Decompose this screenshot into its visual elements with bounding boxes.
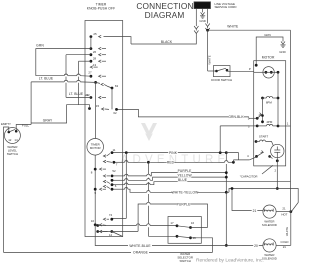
svg-text:SERVICE CORD: SERVICE CORD bbox=[215, 5, 237, 9]
svg-text:14: 14 bbox=[14, 138, 18, 142]
watermark logo bbox=[121, 123, 230, 166]
wire door switch to motor P bbox=[227, 70, 254, 72]
junction yellow v2 bbox=[225, 176, 228, 179]
contact 7 bbox=[103, 160, 106, 163]
timer contact 25 bbox=[99, 35, 102, 38]
white wire down to door switch bbox=[207, 30, 209, 71]
green ground wire bbox=[256, 37, 283, 65]
svg-text:74: 74 bbox=[109, 213, 113, 217]
timer node 52 bbox=[111, 175, 114, 178]
wire to motor 3 bbox=[220, 125, 249, 127]
ORANGE label bbox=[134, 250, 148, 254]
diagonal to box corner bbox=[112, 232, 123, 237]
svg-text:PURPLE: PURPLE bbox=[177, 202, 191, 206]
motor 1 exit bbox=[278, 125, 286, 127]
timer node yellow bbox=[111, 179, 114, 182]
ground symbol motor bbox=[281, 42, 285, 45]
timer node 6 bbox=[111, 183, 114, 186]
PURPLE label bbox=[178, 169, 192, 173]
contact 8 bbox=[100, 168, 103, 171]
motor box bbox=[254, 61, 286, 166]
hop ltblue1 x78 bbox=[77, 74, 80, 76]
cold water solenoid bbox=[263, 239, 276, 252]
svg-text:26: 26 bbox=[93, 50, 97, 54]
20 label cold left bbox=[253, 243, 259, 247]
svg-text:HOT: HOT bbox=[281, 213, 287, 217]
junction pink riser bbox=[125, 151, 128, 154]
svg-text:19: 19 bbox=[193, 236, 197, 240]
junction pink riser3 bbox=[219, 151, 222, 154]
plug chevron 3 bbox=[205, 24, 209, 27]
selector contact upper bbox=[261, 114, 264, 117]
svg-text:22: 22 bbox=[85, 93, 89, 97]
red wire a bbox=[114, 161, 125, 163]
terminal 13 bbox=[90, 60, 93, 63]
riser2 e bbox=[147, 206, 149, 224]
selector terminal 17 bbox=[176, 224, 179, 227]
svg-text:15: 15 bbox=[96, 104, 100, 108]
main winding right node bbox=[277, 97, 280, 100]
water level switch circle bbox=[4, 128, 20, 144]
svg-text:16: 16 bbox=[191, 221, 195, 225]
motor node bottom right bbox=[277, 125, 280, 128]
purple wire seg c bbox=[150, 173, 226, 176]
svg-text:RED: RED bbox=[167, 161, 175, 165]
junction hot feed bbox=[231, 187, 234, 190]
svg-text:SWITCH: SWITCH bbox=[7, 152, 18, 156]
contact 11 bbox=[103, 155, 106, 158]
wls full terminal bbox=[15, 130, 18, 133]
svg-text:FULL: FULL bbox=[22, 123, 29, 127]
lt blue upper wire b bbox=[68, 75, 77, 77]
plug chevron 2 bbox=[194, 31, 198, 34]
svg-text:YELLOW: YELLOW bbox=[177, 173, 192, 177]
junction pink v2 bbox=[225, 151, 228, 154]
plug chevron 4 bbox=[205, 28, 209, 31]
svg-text:ADVENTURE: ADVENTURE bbox=[121, 154, 230, 166]
wire to terminal 13 bbox=[79, 60, 91, 62]
svg-text:28: 28 bbox=[93, 56, 97, 60]
terminal 63 bbox=[111, 87, 114, 90]
yellow wire seg c bbox=[150, 177, 226, 180]
yellow wire seg b bbox=[128, 179, 147, 181]
lt blue 2 wire bbox=[66, 96, 91, 98]
yellow wire seg a bbox=[112, 179, 125, 181]
grn-blk wire bbox=[117, 109, 249, 117]
svg-text:WHITE-YELLOW: WHITE-YELLOW bbox=[172, 191, 199, 195]
vertical x78 lower bbox=[78, 83, 80, 105]
wire timer 12 to riser x138 bbox=[98, 231, 138, 233]
svg-text:BLACK: BLACK bbox=[161, 40, 173, 44]
left service pin wire bbox=[195, 9, 197, 26]
timer node 8 bbox=[94, 168, 97, 171]
blue wire seg a bbox=[112, 184, 125, 186]
riser2 d bbox=[147, 194, 149, 202]
svg-text:GRAY: GRAY bbox=[43, 118, 53, 122]
svg-text:START: START bbox=[259, 135, 268, 139]
white-yellow seg b bbox=[128, 189, 147, 192]
timer motor circle bbox=[87, 139, 104, 156]
svg-text:KNOB-PUSH OFF: KNOB-PUSH OFF bbox=[87, 7, 115, 11]
terminal 3 dot bbox=[256, 125, 259, 128]
purple wire seg b bbox=[128, 175, 147, 177]
hot right junction bbox=[289, 210, 292, 213]
red stub up bbox=[232, 160, 234, 162]
white-yellow seg c bbox=[150, 191, 226, 193]
riser x138 to purple2 bbox=[138, 204, 147, 231]
wire to terminal 28 bbox=[66, 54, 91, 56]
wire seg bbox=[140, 225, 147, 227]
svg-text:WHITE: WHITE bbox=[285, 227, 289, 236]
white wire right vertical bbox=[290, 30, 292, 208]
lt blue lower wire a bbox=[31, 81, 64, 83]
blue hop riser2 bbox=[147, 183, 150, 185]
svg-text:BLUE: BLUE bbox=[178, 178, 188, 182]
selector terminal 19 bbox=[189, 236, 192, 239]
motor protector circle bbox=[263, 67, 274, 78]
wire hot solenoid left feed bbox=[232, 189, 263, 211]
svg-text:4PM: 4PM bbox=[266, 120, 273, 124]
svg-text:SOLENOID: SOLENOID bbox=[262, 223, 277, 227]
wire 2 down from capacitor bbox=[276, 161, 278, 189]
wire to selector 18 bbox=[148, 235, 177, 237]
start switch contact bbox=[268, 155, 271, 158]
red hop riser bbox=[125, 161, 128, 163]
svg-text:PINK: PINK bbox=[169, 151, 178, 155]
riser pink to motor 3 bbox=[219, 126, 221, 153]
wire P into protector bbox=[254, 71, 266, 73]
riser2 f bbox=[147, 227, 149, 236]
svg-text:PURPLE: PURPLE bbox=[178, 169, 192, 173]
hot water solenoid bbox=[263, 205, 276, 218]
svg-text:GRN: GRN bbox=[264, 33, 270, 37]
svg-text:12: 12 bbox=[109, 233, 113, 237]
left winding vertical bbox=[262, 98, 264, 122]
vertical v2 mid bbox=[225, 164, 227, 192]
svg-text:13: 13 bbox=[93, 63, 97, 67]
contact 74 bbox=[103, 218, 106, 221]
riser2 a bbox=[147, 162, 149, 174]
gray wire bbox=[31, 105, 78, 123]
vertical through box bottom bbox=[94, 225, 96, 237]
PURPLE label 2 bbox=[177, 202, 191, 206]
svg-text:P: P bbox=[249, 67, 251, 71]
wire to selector 17 a bbox=[98, 225, 137, 227]
svg-text:WHITE: WHITE bbox=[227, 25, 239, 29]
timer node 12 bbox=[110, 230, 113, 233]
yellow hop riser bbox=[125, 179, 128, 181]
vertical x66 lower bbox=[65, 83, 67, 98]
motor 4 entry bbox=[249, 157, 256, 160]
contact 12a bbox=[100, 230, 103, 233]
contact 27 bbox=[99, 75, 102, 78]
terminal 26 bbox=[90, 47, 93, 50]
ground symbol service bbox=[201, 12, 205, 15]
wire into door switch bbox=[208, 70, 217, 72]
svg-text:GRN: GRN bbox=[36, 44, 44, 48]
wire to 15 bbox=[79, 105, 90, 109]
hop ltblue1 x66 bbox=[64, 74, 67, 76]
svg-text:21: 21 bbox=[282, 206, 286, 210]
vertical x78 mid bbox=[78, 77, 80, 81]
junction wy v2 bbox=[225, 191, 228, 194]
svg-text:GND: GND bbox=[199, 19, 205, 23]
svg-text:MOTOR: MOTOR bbox=[90, 146, 101, 150]
lt blue upper wire c bbox=[80, 75, 91, 78]
svg-text:ORANGE: ORANGE bbox=[133, 251, 149, 255]
svg-text:52: 52 bbox=[112, 169, 116, 173]
svg-text:10: 10 bbox=[91, 219, 95, 223]
timer motor lower vertical bbox=[94, 155, 96, 225]
white vertical lower bbox=[290, 209, 292, 212]
lt blue upper wire a bbox=[36, 75, 64, 77]
junction v2 white-blue bbox=[225, 244, 228, 247]
main winding coil bbox=[266, 96, 272, 98]
svg-text:27: 27 bbox=[88, 70, 92, 74]
empty wire to orange bbox=[4, 127, 9, 252]
contact 9 bbox=[100, 188, 103, 191]
svg-text:SOLENOID: SOLENOID bbox=[262, 257, 277, 261]
white junction dot bbox=[206, 29, 209, 32]
junction red riser2 bbox=[147, 161, 150, 164]
selector arm top bbox=[177, 226, 190, 228]
vertical v2 lower bbox=[225, 192, 227, 245]
white-blue wire right bbox=[152, 244, 263, 246]
timer node sel1 bbox=[96, 224, 99, 227]
ground stub from block bbox=[202, 9, 204, 13]
vertical v2 upper bbox=[225, 153, 227, 161]
start node bbox=[255, 140, 258, 143]
contact 6 bbox=[103, 180, 106, 183]
motor right internal vertical bbox=[277, 72, 279, 126]
wy hop riser bbox=[125, 188, 128, 190]
contact 23 bbox=[101, 83, 104, 86]
capacitor leader line bbox=[262, 165, 273, 174]
timer node 74 bbox=[110, 218, 113, 221]
PINK label bbox=[168, 151, 178, 155]
RED label bbox=[167, 160, 175, 164]
black wire right segment bbox=[131, 34, 196, 45]
junction 2 wire bbox=[276, 187, 279, 190]
svg-text:DOOR SWITCH: DOOR SWITCH bbox=[211, 78, 232, 82]
contact 15 bbox=[102, 108, 105, 111]
purple2 hop riser2 bbox=[147, 202, 150, 204]
timer node 10 bbox=[94, 223, 97, 226]
terminal 15 node bbox=[88, 107, 91, 110]
wire 19 to orange bbox=[191, 238, 213, 253]
red wire end bbox=[228, 161, 233, 163]
GRN-BLK label bbox=[228, 115, 244, 119]
purple hop riser bbox=[125, 174, 128, 176]
svg-text:GND: GND bbox=[279, 50, 285, 54]
svg-text:MOTOR: MOTOR bbox=[262, 56, 275, 60]
door switch terminal right bbox=[226, 69, 229, 72]
green wire left bbox=[36, 49, 91, 76]
red wire c bbox=[150, 161, 225, 163]
svg-text:11: 11 bbox=[112, 148, 115, 152]
vertical x66 upper bbox=[65, 55, 67, 75]
terminal 4 dot bbox=[255, 155, 258, 158]
lt blue lower wire b bbox=[68, 81, 77, 83]
start coil bbox=[260, 140, 266, 142]
timer node 7 bbox=[113, 161, 116, 164]
svg-text:12: 12 bbox=[8, 138, 12, 142]
red hop over v2 bbox=[225, 161, 228, 163]
svg-text:GRN-BLK: GRN-BLK bbox=[228, 115, 244, 119]
selector terminal 18 bbox=[176, 235, 179, 238]
junction purple v2 bbox=[225, 171, 228, 174]
riser x126 bbox=[125, 153, 127, 219]
white vertical to cold bbox=[290, 212, 292, 246]
BLUE label bbox=[178, 178, 188, 182]
motor chassis dot bbox=[255, 64, 258, 67]
timer node 11 bbox=[111, 151, 114, 154]
timer box bbox=[85, 21, 123, 237]
door switch terminal left bbox=[215, 70, 218, 73]
svg-text:21: 21 bbox=[283, 245, 287, 249]
timer node wy bbox=[111, 188, 114, 191]
speed selector arm bbox=[257, 115, 261, 119]
selector arm bottom bbox=[177, 236, 190, 237]
riser to contact 74 bbox=[112, 217, 127, 220]
WHITE-YELLOW label bbox=[172, 190, 198, 194]
lt blue lower wire c bbox=[80, 81, 95, 84]
contact 52 bbox=[103, 175, 106, 178]
purple wire 2 to selector bbox=[150, 204, 207, 228]
stub bbox=[207, 30, 209, 31]
full wire bbox=[16, 125, 31, 132]
wire 1 to white vertical bbox=[286, 125, 291, 127]
link 63-62 bbox=[111, 88, 113, 109]
svg-text:DIAGRAM: DIAGRAM bbox=[145, 10, 185, 20]
protector contact link bbox=[266, 71, 271, 73]
door switch arm bbox=[217, 68, 227, 71]
terminal 27 bbox=[90, 75, 93, 78]
svg-text:*CAPACITOR: *CAPACITOR bbox=[240, 175, 258, 179]
wls arm bbox=[9, 129, 15, 132]
line voltage terminal block bbox=[194, 2, 211, 9]
timer node sel2 bbox=[96, 230, 99, 233]
contact 22 bbox=[99, 96, 102, 99]
plug chevron 1 bbox=[194, 26, 198, 29]
orange wire left bbox=[4, 251, 132, 253]
timer node 9 bbox=[94, 188, 97, 191]
water selector switch box bbox=[168, 217, 201, 244]
white-blue wire left bbox=[95, 237, 128, 246]
right service pin wire bbox=[207, 9, 209, 24]
capacitor bottom node bbox=[276, 159, 279, 162]
svg-text:COLD: COLD bbox=[280, 240, 288, 244]
selector terminal 16 bbox=[189, 226, 192, 229]
terminal 22 bbox=[90, 96, 93, 99]
blue hop riser bbox=[125, 183, 128, 185]
YELLOW label bbox=[178, 173, 192, 177]
purple hop riser2 bbox=[147, 174, 150, 176]
door switch box bbox=[213, 66, 230, 77]
hop ltblue2 x66 bbox=[64, 80, 67, 82]
terminal 5 stub bbox=[249, 117, 257, 119]
wire to hot solenoid right bbox=[229, 189, 298, 212]
red wire b bbox=[128, 161, 147, 163]
svg-text:62: 62 bbox=[113, 111, 117, 115]
terminal 25 bbox=[90, 35, 93, 38]
red junction bbox=[232, 161, 235, 164]
white-yellow seg a bbox=[112, 188, 125, 190]
orange wire right bbox=[149, 251, 213, 253]
terminal 62 bbox=[115, 108, 118, 111]
svg-text:WHITE-BLUE: WHITE-BLUE bbox=[129, 244, 151, 248]
svg-text:LT. BLUE: LT. BLUE bbox=[39, 76, 54, 80]
svg-text:Rendered by LeadVenture, Inc.: Rendered by LeadVenture, Inc. bbox=[196, 257, 264, 263]
blue wire seg b bbox=[128, 184, 147, 186]
riser2 b bbox=[147, 178, 149, 179]
contact 10 bbox=[100, 224, 103, 227]
purple wire seg a bbox=[112, 175, 125, 177]
hop over riser x138 bbox=[136, 224, 139, 226]
21 label hot left bbox=[252, 208, 258, 212]
selector contact lower 4PM bbox=[261, 120, 264, 123]
vertical x78 upper bbox=[78, 61, 80, 75]
svg-text:21: 21 bbox=[253, 209, 257, 213]
capacitor circle bbox=[271, 144, 284, 157]
terminal 5 dot bbox=[256, 117, 259, 120]
contact aux bbox=[90, 66, 93, 69]
yellow hop riser2 bbox=[147, 179, 150, 181]
hop over riser x148 bbox=[147, 224, 150, 226]
pink wire bbox=[112, 152, 226, 154]
WHITE-BLUE label bbox=[129, 243, 151, 247]
hot right lead bbox=[276, 211, 291, 213]
vertical x66 mid bbox=[65, 77, 67, 81]
contact 28 bbox=[99, 53, 102, 56]
contact to capacitor bbox=[270, 156, 273, 158]
contact 13 bbox=[99, 60, 102, 63]
svg-text:WHITE: WHITE bbox=[208, 55, 212, 64]
riser2 c bbox=[147, 182, 149, 191]
svg-text:6PM: 6PM bbox=[266, 100, 273, 104]
link 25-26 bbox=[90, 37, 92, 49]
svg-text:SWITCH: SWITCH bbox=[179, 259, 190, 263]
terminal 28 bbox=[90, 53, 93, 56]
protector to main node bbox=[271, 71, 278, 73]
cold right lead bbox=[276, 244, 291, 246]
terminal 23 node bbox=[94, 81, 97, 84]
contact wy bbox=[103, 185, 106, 188]
svg-text:25: 25 bbox=[93, 32, 97, 36]
timer motor feed vertical bbox=[95, 82, 97, 138]
white wire horizontal bbox=[208, 29, 291, 31]
wls empty terminal bbox=[8, 131, 11, 134]
contact 26 bbox=[99, 47, 102, 50]
motor 4 feed bbox=[233, 159, 249, 161]
start switch arm bbox=[257, 153, 264, 157]
svg-text:63: 63 bbox=[115, 84, 119, 88]
black wire to timer 25 bbox=[104, 37, 132, 44]
wy hop riser2 bbox=[147, 191, 150, 193]
motor node top right bbox=[277, 71, 280, 74]
start winding coil row bbox=[267, 124, 273, 126]
wire riser to 16 bbox=[191, 227, 208, 229]
pink wire to motor 4 bbox=[226, 153, 238, 160]
terminal 3 stub bbox=[250, 125, 258, 127]
blue wire seg c bbox=[150, 182, 290, 185]
hop ltblue2 x78 bbox=[77, 80, 80, 82]
svg-text:17: 17 bbox=[170, 221, 174, 225]
svg-text:20: 20 bbox=[254, 244, 258, 248]
svg-text:EMPTY: EMPTY bbox=[1, 122, 11, 126]
svg-text:LT. BLUE: LT. BLUE bbox=[69, 92, 84, 96]
wire to selector 17 b bbox=[150, 225, 177, 227]
